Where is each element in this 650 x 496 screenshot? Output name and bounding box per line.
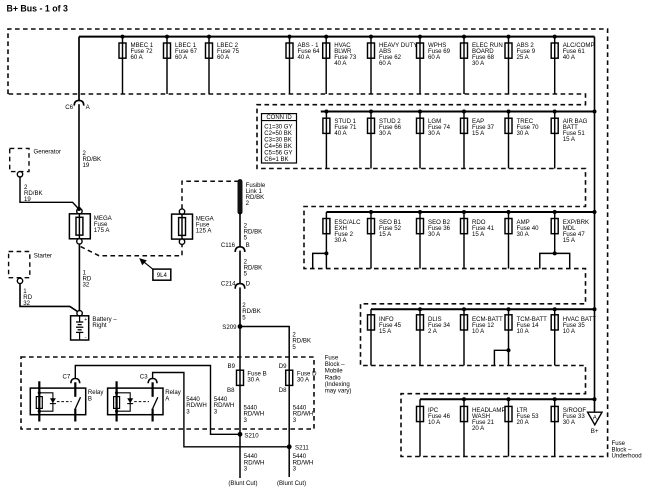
- svg-text:Underhood: Underhood: [612, 453, 642, 460]
- wire: S209 down to Fuse B: [239, 327, 241, 371]
- fuse F70 TREC: [505, 110, 539, 169]
- svg-text:32: 32: [23, 300, 30, 307]
- svg-text:30 A: 30 A: [517, 130, 530, 137]
- svg-text:60 A: 60 A: [175, 54, 188, 61]
- wire: row-2 feed bus: [321, 111, 595, 113]
- svg-text:10 A: 10 A: [472, 328, 485, 335]
- svg-text:C116: C116: [221, 242, 236, 249]
- Fusible Link 1 RD/BK 2: [238, 179, 266, 212]
- svg-text:(Blunt Cut): (Blunt Cut): [277, 480, 306, 487]
- relay B (mobile radio): [30, 381, 104, 421]
- svg-text:30 A: 30 A: [428, 231, 441, 238]
- fuse F46 IPC: [417, 399, 451, 456]
- fuse F45 INFO: [368, 309, 402, 365]
- svg-text:15 A: 15 A: [379, 231, 392, 238]
- svg-text:19: 19: [24, 196, 31, 203]
- svg-text:S209: S209: [222, 324, 237, 331]
- wire: row-4 feed bus: [371, 308, 595, 310]
- svg-text:S211: S211: [295, 445, 309, 452]
- wire: right B+ vertical feed: [594, 37, 596, 413]
- Battery - Right: [71, 311, 118, 341]
- svg-text:D9: D9: [279, 363, 287, 370]
- junction: generator wire joins B+ drop: [77, 207, 81, 211]
- fuse F52 SEO B1: [368, 210, 402, 269]
- svg-text:D: D: [246, 280, 251, 287]
- svg-text:B8: B8: [227, 387, 235, 394]
- svg-text:C3=30 BK: C3=30 BK: [264, 137, 292, 143]
- svg-text:C2=50 BK: C2=50 BK: [264, 131, 292, 137]
- svg-text:-: -: [85, 335, 87, 341]
- svg-text:40 A: 40 A: [298, 54, 311, 61]
- wire: top B+ bus: [79, 36, 595, 38]
- wire: 2 RD/BK 5 (C116 to C214): [240, 251, 262, 284]
- wire: 5440 RD/WH 3 (S211 to blunt cut): [277, 447, 313, 487]
- svg-text:30 A: 30 A: [379, 130, 392, 137]
- svg-text:15 A: 15 A: [563, 136, 576, 143]
- svg-text:B9: B9: [228, 363, 236, 370]
- wire: ESC/ALC branch stub: [313, 251, 329, 268]
- connector C3: [140, 373, 157, 383]
- fuse F71 STUD 1: [323, 110, 357, 169]
- wire: relay A feed to S211: [153, 373, 287, 447]
- fuse F67 LBEC 1: [164, 35, 198, 94]
- fuse F68 ELEC RUN BOARD: [461, 35, 503, 94]
- connector C7: [63, 373, 80, 383]
- wire: 2 RD/BK 5 (S209 branch to Fuse D): [240, 327, 311, 371]
- fuse F40 AMP: [505, 210, 539, 269]
- svg-text:60 A: 60 A: [131, 54, 144, 61]
- relay A (mobile radio): [108, 381, 182, 421]
- junction: row-5 bus to B+ vertical: [593, 397, 597, 401]
- svg-text:may vary): may vary): [325, 388, 352, 395]
- svg-text:C214: C214: [221, 280, 236, 287]
- connector C116 pin B: [221, 242, 250, 252]
- svg-text:40 A: 40 A: [334, 130, 347, 137]
- svg-text:10 A: 10 A: [517, 328, 530, 335]
- wire: relay B feed to S210: [75, 366, 238, 435]
- svg-text:(Blunt Cut): (Blunt Cut): [228, 480, 257, 487]
- splice S211: [287, 444, 310, 451]
- fuse F34 DLIS: [417, 307, 451, 365]
- splice S209: [222, 324, 242, 331]
- MEGA Fuse 175 A: [69, 209, 112, 245]
- Starter dashed box: [9, 252, 52, 278]
- junction: row-2 bus to B+ vertical: [593, 110, 597, 114]
- fuse F73 HVAC BLWR: [323, 35, 357, 94]
- wire: 5440 RD/WH 3 (S210 to blunt cut): [228, 434, 264, 487]
- svg-text:3: 3: [244, 466, 248, 473]
- fuse F21 HEADLAMP WASH: [461, 397, 506, 456]
- wire: EXP/BRK split stub: [540, 251, 570, 268]
- B+ source triangle: [588, 412, 602, 435]
- svg-text:30 A: 30 A: [297, 377, 310, 384]
- Fuse Block - Mobile Radio dashed box: [21, 357, 314, 429]
- dashed wire: MEGA 125 to Fusible Link 1: [182, 181, 238, 209]
- svg-text:S210: S210: [244, 432, 259, 439]
- svg-text:CONN ID: CONN ID: [266, 115, 292, 121]
- svg-text:C5=56 GY: C5=56 GY: [264, 150, 292, 156]
- fuse Fuse D 30 A (mobile radio): [279, 363, 317, 447]
- svg-text:20 A: 20 A: [517, 419, 530, 426]
- svg-text:D8: D8: [279, 387, 287, 394]
- wire: TCM-BATT branch stub: [494, 348, 510, 365]
- svg-text:40 A: 40 A: [334, 60, 347, 67]
- fuse F61 ALC/COMP: [551, 35, 594, 94]
- fuse F75 LBEC 2: [206, 35, 240, 94]
- svg-text:60 A: 60 A: [217, 54, 230, 61]
- svg-text:30 A: 30 A: [563, 419, 576, 426]
- svg-text:2 A: 2 A: [428, 328, 438, 335]
- svg-text:25 A: 25 A: [517, 54, 530, 61]
- junction: row-3 bus to B+ vertical: [593, 210, 597, 214]
- wire: 2 RD/BK 5 (fusible link to C116): [240, 212, 262, 247]
- svg-text:Right: Right: [92, 322, 107, 329]
- svg-text:15 A: 15 A: [472, 130, 485, 137]
- fuse Fuse B 30 A (mobile radio): [227, 363, 267, 434]
- CONN ID table: [262, 114, 297, 163]
- svg-text:30 A: 30 A: [428, 130, 441, 137]
- svg-text:+: +: [84, 317, 87, 323]
- svg-text:60 A: 60 A: [379, 60, 392, 67]
- fuse F9 ABS 2: [505, 35, 536, 94]
- wire: 1 RD 32 (starter to battery): [20, 284, 78, 312]
- svg-text:B: B: [88, 396, 92, 403]
- svg-text:30 A: 30 A: [472, 60, 485, 67]
- fuse F41 RDO: [461, 210, 495, 269]
- fuse F53 LTR: [505, 397, 539, 456]
- wire: 2 RD/BK 5 (C214 to S209): [240, 287, 261, 326]
- wire: B+ bus drop to C6: [78, 37, 80, 101]
- connector C214 pin D: [221, 280, 251, 288]
- svg-text:15 A: 15 A: [563, 237, 576, 244]
- fuse F33 S/ROOF: [551, 397, 586, 456]
- connector C6: [65, 100, 90, 110]
- svg-text:Generator: Generator: [34, 148, 61, 155]
- Generator dashed box: [10, 148, 61, 171]
- dashed wire: MEGA 175 to MEGA 125 (9L4 option): [81, 245, 182, 256]
- svg-text:B+: B+: [591, 428, 599, 435]
- wire: 2 RD/BK 19 (generator to junction): [20, 177, 79, 209]
- svg-text:B: B: [246, 242, 250, 249]
- svg-text:125 A: 125 A: [196, 227, 213, 234]
- callout 9L4 with arrow: [139, 258, 171, 280]
- Fuse Block - Underhood dashed outline: [8, 29, 608, 457]
- fuse F69 WPHS: [417, 35, 451, 94]
- fuse F2 ESC/ALC EXH: [323, 212, 361, 269]
- fuse F66 STUD 2: [368, 110, 402, 169]
- junction: row-4 bus to B+ vertical: [593, 307, 597, 311]
- fuse F37 EAP: [461, 110, 495, 169]
- fuse F47 EXP/BRK MDL: [551, 210, 589, 253]
- svg-text:C6=1 BK: C6=1 BK: [264, 157, 288, 163]
- svg-text:175 A: 175 A: [94, 227, 111, 234]
- fuse F14 TCM-BATT: [505, 307, 547, 365]
- fuse F36 SEO B2: [417, 210, 451, 269]
- svg-text:C6: C6: [65, 104, 73, 111]
- terminal: starter feed: [17, 278, 22, 283]
- svg-text:15 A: 15 A: [472, 231, 485, 238]
- svg-text:19: 19: [83, 162, 90, 169]
- wire: 1 RD 32 (MEGA 175 to battery): [79, 244, 92, 311]
- svg-text:C7: C7: [63, 373, 71, 380]
- svg-text:32: 32: [83, 281, 90, 288]
- svg-text:C1=30 GY: C1=30 GY: [264, 124, 292, 130]
- fuse F64 ABS-1: [286, 35, 320, 94]
- svg-text:60 A: 60 A: [428, 54, 441, 61]
- wire: row-5 feed bus: [420, 398, 595, 400]
- svg-text:20 A: 20 A: [472, 425, 485, 432]
- fuse F72 MBEC 1: [119, 35, 154, 94]
- svg-text:15 A: 15 A: [379, 328, 392, 335]
- svg-text:C3: C3: [140, 373, 148, 380]
- splice S210: [238, 432, 260, 439]
- svg-text:10 A: 10 A: [563, 328, 576, 335]
- svg-text:B+ Bus - 1 of 3: B+ Bus - 1 of 3: [7, 3, 68, 13]
- svg-text:10 A: 10 A: [428, 419, 441, 426]
- fuse F74 LGM: [417, 110, 451, 169]
- svg-text:C4=56 BK: C4=56 BK: [264, 144, 292, 150]
- svg-text:40 A: 40 A: [563, 54, 576, 61]
- wire: 2 RD/BK 19 (C6 to MEGA fuse): [79, 104, 101, 210]
- MEGA Fuse 125 A: [172, 209, 215, 244]
- svg-text:30 A: 30 A: [517, 231, 530, 238]
- fuse F51 AIR BAG BATT: [551, 110, 587, 169]
- terminal: generator output: [17, 172, 22, 177]
- fuse F62 HEAVY DUTY ABS: [368, 35, 418, 94]
- fuse F35 HVAC BATT: [551, 307, 596, 365]
- svg-text:30 A: 30 A: [247, 377, 260, 384]
- svg-text:30 A: 30 A: [334, 237, 347, 244]
- svg-text:Starter: Starter: [34, 253, 52, 260]
- fuse F12 ECM-BATT: [461, 307, 503, 365]
- svg-text:9L4: 9L4: [157, 272, 168, 279]
- wire: row-3 feed bus: [326, 211, 594, 213]
